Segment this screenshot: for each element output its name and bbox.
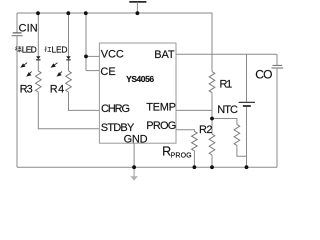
svg-text:NTC: NTC — [217, 104, 238, 116]
op-amp U1 IC body YS4056 box — [99, 43, 176, 143]
label 红LED (red LED) — [45, 46, 51, 52]
svg-text:R1: R1 — [220, 78, 233, 90]
svg-text:LED: LED — [22, 44, 37, 54]
capacitor CIN top plate — [13, 32, 22, 34]
battery BT1 negative short bar — [243, 105, 251, 107]
wire R3 bottom to STDBY — [38, 92, 99, 129]
wire battery branch vertical upper — [246, 54, 248, 102]
node dot rail-VCC — [84, 11, 88, 15]
battery BT1 positive long bar — [239, 101, 255, 103]
wire CE stub — [86, 70, 99, 72]
node dot rail-power — [136, 11, 140, 15]
node dot battery-rail — [245, 165, 249, 169]
wire top rail — [17, 12, 212, 14]
wire left vertical lower — [16, 36, 18, 168]
wire red LED branch from rail — [68, 13, 70, 56]
resistor R2 zigzag — [209, 134, 215, 155]
svg-text:GND: GND — [124, 134, 148, 146]
svg-text:PROG: PROG — [146, 120, 176, 132]
power input flag bar — [129, 1, 146, 3]
svg-text:PROG: PROG — [171, 152, 192, 159]
ground arrow — [130, 176, 138, 180]
node dot rail-D2 — [66, 11, 70, 15]
wire GND pin down — [133, 143, 135, 167]
svg-text:CO: CO — [255, 67, 272, 81]
node dot RPROG-rail — [193, 165, 197, 169]
svg-text:R2: R2 — [199, 124, 213, 136]
capacitor CIN bottom plate — [12, 35, 23, 37]
LED D1 (green) diode symbol — [36, 56, 40, 60]
LED D2 (red) diode symbol — [66, 56, 70, 60]
svg-text:VCC: VCC — [101, 49, 124, 61]
svg-text:STDBY: STDBY — [101, 122, 135, 134]
wire red LED cathode to R4 — [68, 60, 70, 71]
node dot GND-rail — [132, 165, 136, 169]
capacitor CO bottom plate — [272, 67, 284, 69]
svg-text:YS4056: YS4056 — [126, 74, 154, 84]
resistor RPROG zigzag — [192, 131, 198, 151]
svg-text:CIN: CIN — [19, 23, 38, 35]
capacitor CO top plate — [273, 64, 283, 66]
wire green LED cathode to R3 — [37, 60, 39, 71]
resistor R1 zigzag — [209, 72, 215, 93]
resistor R3 zigzag — [36, 71, 42, 92]
ground stem — [133, 167, 135, 176]
wire PROG pin to RPROG — [176, 130, 194, 132]
node dot R2-rail — [210, 165, 214, 169]
svg-text:CHRG: CHRG — [101, 103, 130, 115]
svg-text:R4: R4 — [50, 83, 64, 95]
node dot VCC-CE — [84, 55, 88, 59]
svg-text:BAT: BAT — [154, 49, 175, 61]
wire left vertical upper (to CIN) — [16, 13, 18, 33]
wire right vertical upper (to CO) — [276, 54, 278, 65]
thermistor NTC zigzag — [234, 125, 240, 146]
svg-text:LED: LED — [52, 44, 68, 54]
wire right vertical lower — [276, 68, 278, 167]
wire NTC bottom to battery line — [237, 146, 247, 157]
wire TEMP pin to divider — [176, 109, 212, 111]
node dot rail-D1 — [36, 11, 40, 15]
wire VCC stub — [86, 55, 99, 57]
wire BAT pin to right — [176, 53, 277, 55]
wire R1 to R2 node — [211, 93, 213, 134]
label 绿LED (green LED) — [15, 46, 21, 52]
wire battery branch vertical lower — [246, 107, 248, 167]
wire R2 bottom to rail — [211, 155, 213, 167]
wire R4 bottom to CHRG — [69, 92, 100, 110]
svg-text:CE: CE — [100, 66, 115, 78]
LED D2 emission arrows — [52, 63, 62, 76]
LED D1 emission arrows — [21, 63, 31, 76]
power input flag stem — [136, 2, 138, 13]
svg-text:TEMP: TEMP — [146, 102, 176, 114]
wire green LED branch from rail — [37, 13, 39, 56]
resistor R4 zigzag — [66, 71, 72, 92]
wire bottom rail — [17, 166, 277, 168]
node dot TEMP-NTC — [210, 117, 214, 121]
wire NTC tap horizontal — [212, 119, 237, 125]
wire VCC/CE branch vertical — [85, 13, 87, 71]
wire R1 branch vertical from top rail — [211, 13, 213, 72]
svg-text:R3: R3 — [20, 83, 33, 95]
wire RPROG bottom to rail — [193, 151, 195, 167]
